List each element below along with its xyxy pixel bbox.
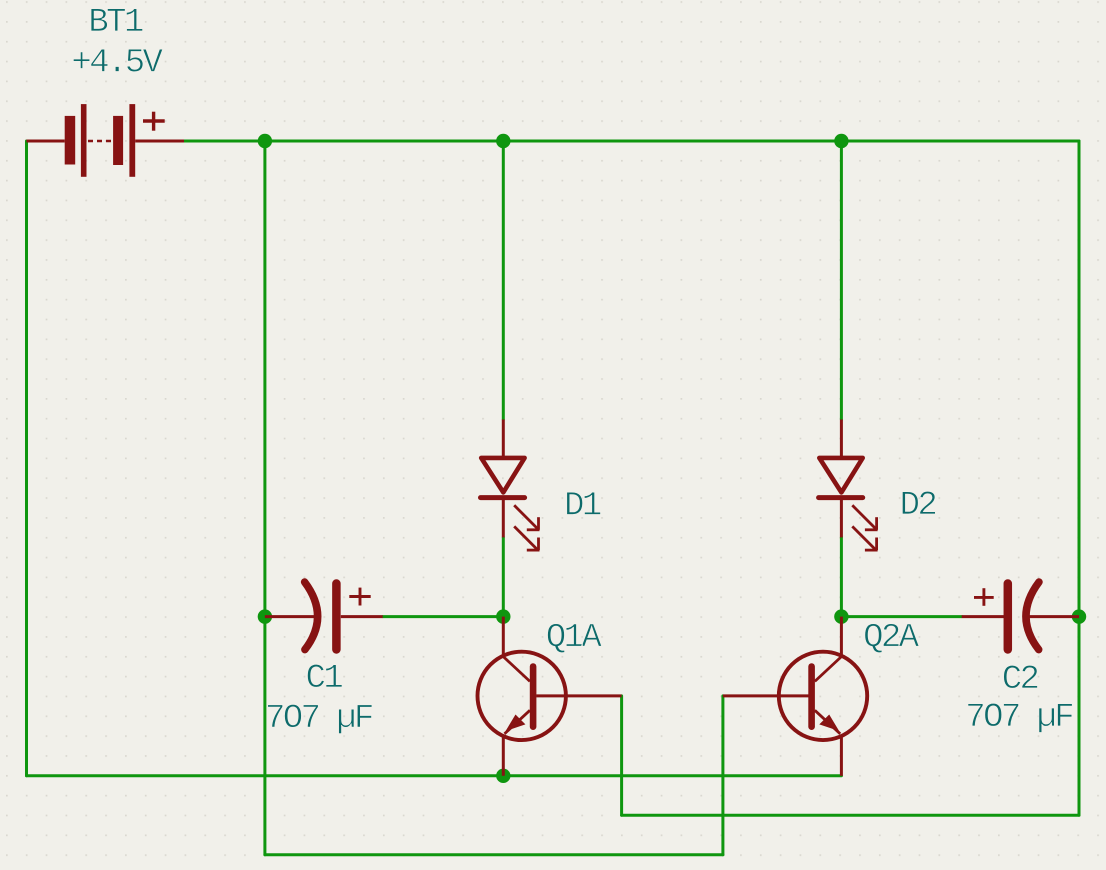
label C2 value	[968, 703, 1072, 732]
capacitor C2	[962, 582, 1079, 650]
wire bottom cross	[265, 853, 723, 856]
wire C1 down leg	[263, 617, 266, 855]
wire C1 column	[263, 141, 266, 617]
wire left rail	[25, 141, 28, 776]
capacitor C1	[265, 582, 383, 650]
junction top C	[834, 134, 848, 148]
wire D1 column lower	[502, 537, 505, 616]
junction top A	[258, 134, 272, 148]
label C2 reference	[1004, 665, 1038, 688]
wire emitter rail	[27, 774, 842, 777]
junction emitter	[496, 769, 510, 783]
wire right rail upper	[1078, 141, 1081, 617]
label BT1 value	[73, 49, 162, 72]
transistor Q2A	[723, 617, 867, 776]
label C1 reference	[307, 664, 342, 687]
transistor Q1A	[478, 617, 622, 776]
wire C1 to node B	[383, 615, 504, 618]
junction C1 left	[258, 609, 272, 623]
label BT1 reference	[91, 9, 143, 31]
wire Q1 base leg	[620, 696, 623, 815]
wire node D to C2	[841, 615, 961, 618]
label D1	[567, 492, 601, 514]
junction D2 anode node	[834, 609, 848, 623]
wire Q2 base leg	[721, 696, 724, 855]
wire D2 column upper	[840, 141, 843, 420]
label Q1A	[548, 624, 602, 653]
wire right rail lower	[1078, 617, 1081, 816]
wire D1 column upper	[502, 141, 505, 420]
wire top rail	[184, 140, 1079, 143]
LED D1	[481, 420, 540, 551]
wire D2 column lower	[840, 537, 843, 616]
wire bottom middle cross	[622, 814, 1079, 817]
battery BT1	[27, 104, 185, 177]
LED D2	[819, 420, 878, 551]
junction C2 right	[1072, 609, 1086, 623]
label C1 value	[268, 704, 372, 733]
label Q2A	[865, 624, 919, 653]
label D2	[902, 491, 935, 514]
junction top B	[496, 134, 510, 148]
junction D1 anode node	[496, 609, 510, 623]
